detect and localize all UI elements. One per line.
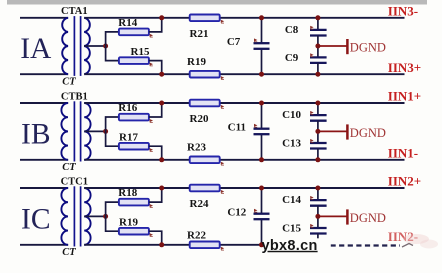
node junction bottom rail [159,157,164,162]
wire top rail left (IB) [20,102,68,104]
pin marker R15 [150,63,153,66]
capacitor C13 [310,131,327,159]
node junction top rail [159,101,164,106]
svg-text:IIN1+: IIN1+ [388,89,421,104]
svg-text:DGND: DGND [350,40,386,54]
svg-text:R15: R15 [131,46,150,58]
resistor R21 (top rail) [190,15,220,22]
svg-text:CT: CT [62,76,76,87]
svg-text:ybx8.cn: ybx8.cn [262,238,318,254]
resistor R16 [119,114,149,121]
pin marker R19 [150,233,153,236]
wire R17 to bottom rail [149,146,162,160]
capacitor C8 [310,18,327,46]
pin marker R17 [150,148,153,151]
node junction C13 bottom [315,157,320,162]
ground DGND (IB row) [320,124,347,139]
svg-text:CT: CT [62,247,76,258]
svg-text:R21: R21 [190,28,209,40]
watermark background [264,239,331,254]
pin marker R21 [221,20,224,23]
node junction C14 top [315,186,320,191]
pin marker R20 [221,105,224,108]
wire bottom rail dashed segment (behind watermark) [331,244,401,246]
wire secondary center tap [84,130,105,132]
node junction C11 bottom [259,157,264,162]
resistor R19 (bottom rail) [190,71,220,78]
svg-text:DGND: DGND [350,126,386,140]
wire R16 to top rail [149,103,162,117]
transformer CTA1 core [74,16,80,76]
top grey toolbar strip [7,0,427,5]
svg-text:R19: R19 [187,56,206,68]
node junction C7 bottom [259,72,264,77]
pin marker R18 [150,204,153,207]
svg-text:CTA1: CTA1 [61,6,88,17]
wire bottom rail left (IA) [20,73,68,75]
node junction C10/C13 mid [315,129,320,134]
watermark red smudge [402,234,438,249]
svg-text:R14: R14 [118,17,137,29]
pin marker C14 [310,196,313,199]
wire bottom rail left (IB) [20,159,68,161]
svg-text:R20: R20 [190,113,209,125]
pin marker C9 [310,53,313,56]
node center tap junction [103,44,108,49]
wire top rail left (IC) [20,187,68,189]
wire secondary center tap [84,215,105,217]
wire bottom rail right (IA) [84,73,404,75]
node junction C9 bottom [315,72,320,77]
pin marker C8 [310,26,313,29]
svg-text:R22: R22 [187,230,206,242]
node center tap junction [103,214,108,219]
transformer CTB1 secondary winding [84,103,90,160]
node center tap junction [103,129,108,134]
node junction C11 top [259,101,264,106]
wire bottom rail right (IC) [84,244,263,246]
node junction C10 top [315,101,320,106]
transformer CTA1 secondary winding [84,18,90,74]
svg-text:R18: R18 [118,187,137,199]
svg-text:C13: C13 [282,138,301,150]
resistor R18 [119,199,149,206]
svg-text:CT: CT [62,162,76,173]
wire bottom rail right (IB) [84,159,404,161]
node junction C12 bottom [259,242,264,247]
wire R15 to bottom rail [149,61,162,75]
node junction top rail [159,15,164,20]
wire R14 to top rail [149,18,162,32]
svg-text:CTB1: CTB1 [61,91,88,102]
svg-text:C9: C9 [285,52,299,64]
pin marker R24 [221,190,224,193]
resistor R22 (bottom rail) [190,242,220,249]
transformer CTB1 core [74,101,80,161]
wire bottom rail left (IC) [20,244,68,246]
pin marker C13 [310,139,313,142]
svg-text:IB: IB [21,119,51,151]
transformer CTA1 primary winding [62,18,68,74]
transformer CTC1 secondary winding [84,188,90,245]
wire tap bracket to R18/R19 [106,202,119,231]
node junction C8 top [315,15,320,20]
svg-text:R24: R24 [190,198,209,210]
wire secondary center tap [84,45,105,47]
transformer CTB1 primary winding [61,103,68,160]
resistor R20 (top rail) [190,100,220,107]
capacitor C14 [310,188,327,216]
transformer CTC1 core [74,186,80,246]
svg-text:IA: IA [20,33,52,65]
svg-text:C10: C10 [282,109,301,121]
node junction bottom rail [159,242,164,247]
svg-text:R16: R16 [118,102,137,114]
svg-text:IC: IC [21,204,51,236]
pin marker R23 [221,162,224,165]
pin marker R19 [221,76,224,79]
node junction C12 top [259,186,264,191]
wire top rail left (IA) [20,17,68,19]
pin marker R16 [150,119,153,122]
capacitor C9 [310,46,327,74]
pin marker C12 [254,209,257,212]
capacitor C7 [254,18,270,74]
svg-text:C8: C8 [285,24,299,36]
resistor R15 [119,57,149,64]
svg-text:IIN2+: IIN2+ [388,174,421,189]
wire top rail right (IC) [84,187,404,189]
svg-text:C12: C12 [227,207,246,219]
capacitor C15 [310,216,327,238]
svg-text:C15: C15 [282,223,301,235]
pin marker C10 [310,111,313,114]
svg-text:C14: C14 [282,194,301,206]
resistor R23 (bottom rail) [190,157,220,164]
svg-text:IIN3+: IIN3+ [388,60,421,75]
svg-text:IIN3-: IIN3- [388,3,418,18]
pin marker C15 [310,224,313,227]
pin marker C7 [254,38,257,41]
capacitor C11 [254,103,270,160]
wire tap bracket to R16/R17 [106,117,119,146]
wire R18 to top rail [149,188,162,202]
pin marker C11 [254,124,257,127]
wire top rail right (IB) [84,102,404,104]
svg-text:CTC1: CTC1 [61,176,88,187]
transformer CTC1 primary winding [61,188,68,245]
svg-text:C7: C7 [227,36,241,48]
ground DGND (IC row) [320,209,347,224]
pin marker R22 [221,247,224,250]
svg-text:DGND: DGND [350,211,386,225]
wire R19 to bottom rail [149,231,162,245]
resistor R19 [119,228,149,235]
wire top rail right (IA) [84,17,404,19]
pin marker R14 [150,34,153,37]
svg-text:R17: R17 [119,132,138,144]
svg-text:C11: C11 [228,122,246,134]
svg-text:R23: R23 [187,142,206,154]
svg-text:IIN1-: IIN1- [388,145,418,160]
capacitor C10 [310,103,327,131]
resistor R14 [119,29,149,36]
wire tap bracket to R14/R15 [106,32,119,61]
node junction C8/C9 mid [315,44,320,49]
node junction bottom rail [159,72,164,77]
capacitor C12 [254,188,270,245]
svg-text:R19: R19 [119,217,138,229]
node junction C7 top [259,15,264,20]
node junction C14/C15 mid [315,214,320,219]
resistor R24 (top rail) [190,185,220,192]
ground DGND (IA row) [320,39,347,54]
resistor R17 [119,143,149,150]
node junction top rail [159,186,164,191]
net label IIN2- [388,229,418,244]
